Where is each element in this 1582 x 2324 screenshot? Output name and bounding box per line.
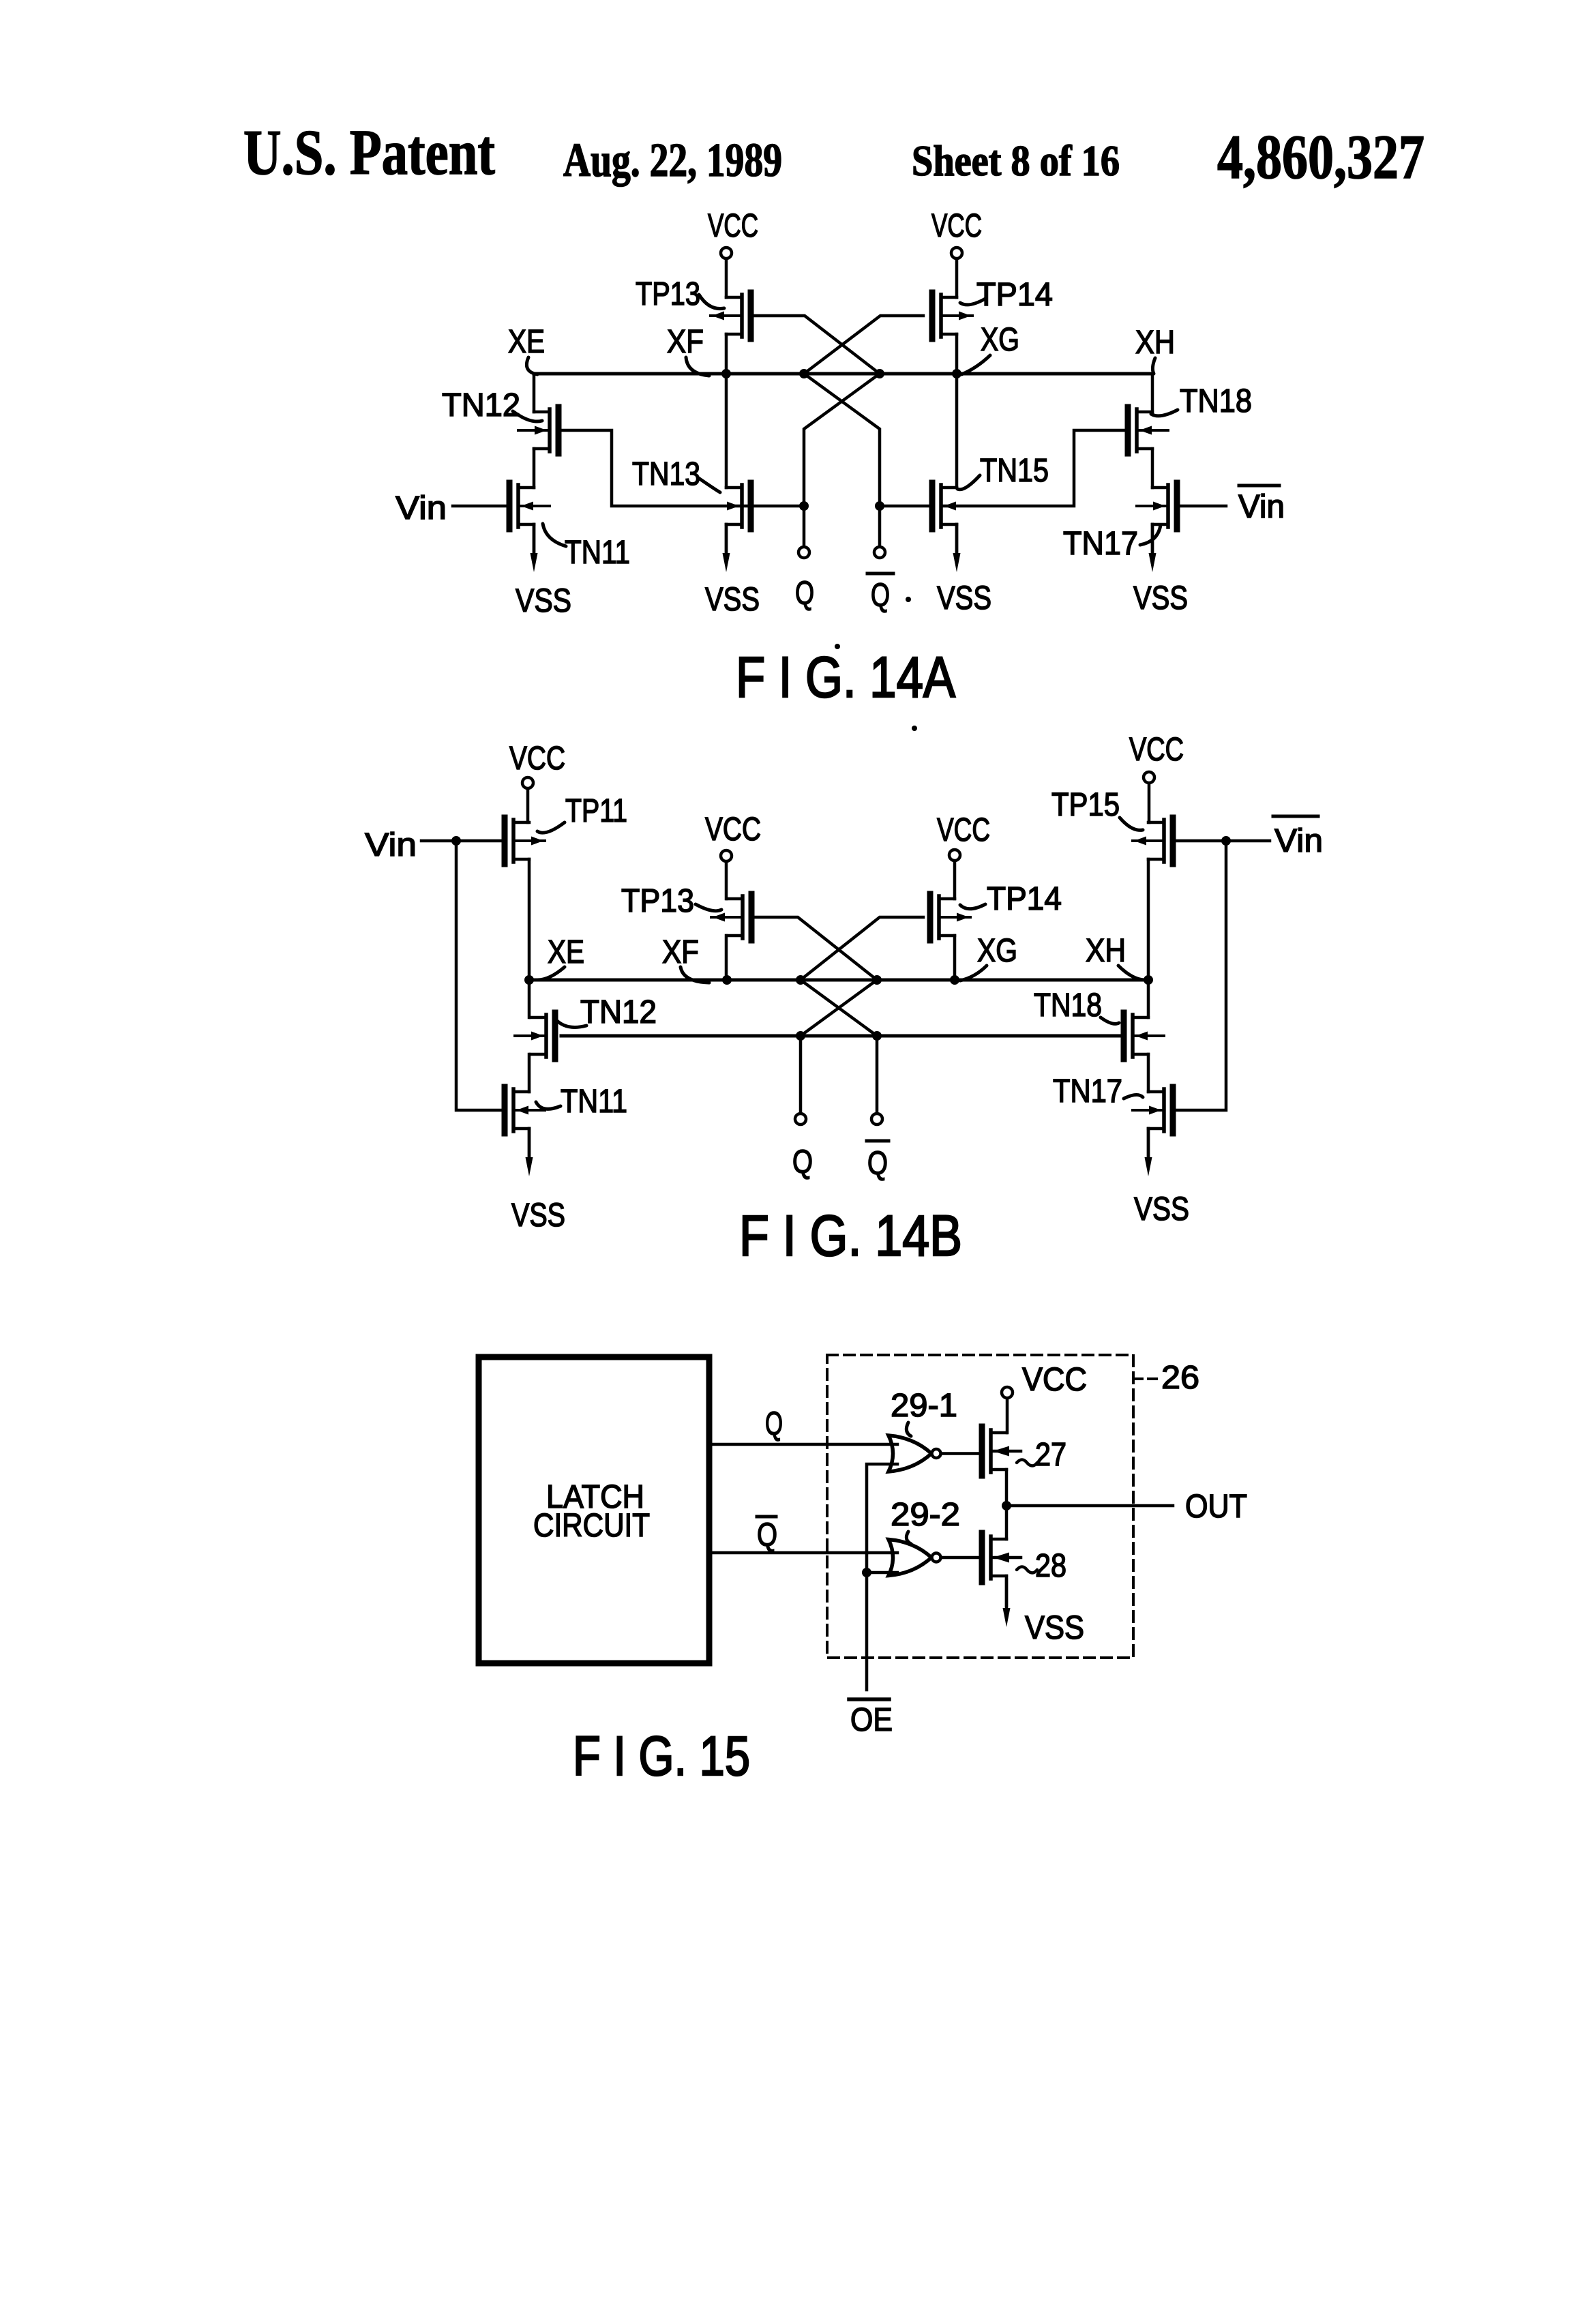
svg-text:29-2: 29-2 [891,1497,960,1533]
svg-text:VCC: VCC [937,812,990,848]
svg-text:F I G. 14A: F I G. 14A [736,645,955,709]
svg-text:TN13: TN13 [632,456,700,492]
svg-text:Vin: Vin [1274,823,1323,859]
svg-text:29-1: 29-1 [891,1388,957,1424]
svg-text:OUT: OUT [1185,1489,1247,1525]
svg-text:Q: Q [792,1144,813,1180]
svg-text:U.S. Patent: U.S. Patent [243,117,495,188]
svg-text:VSS: VSS [1025,1610,1084,1646]
svg-text:TN12: TN12 [580,994,657,1030]
svg-text:XH: XH [1135,325,1175,361]
svg-text:TN17: TN17 [1053,1073,1122,1109]
svg-text:Vin: Vin [1238,489,1285,525]
svg-text:VCC: VCC [705,811,761,848]
svg-text:VSS: VSS [1134,1191,1189,1227]
svg-text:VCC: VCC [1022,1362,1087,1398]
svg-text:27: 27 [1035,1437,1066,1473]
svg-text:XF: XF [667,324,704,360]
svg-text:TN11: TN11 [561,1084,627,1120]
svg-text:Vin: Vin [395,490,447,526]
svg-text:TP14: TP14 [987,881,1062,917]
svg-text:VCC: VCC [509,741,565,777]
svg-text:VCC: VCC [1129,732,1184,768]
svg-text:TP11: TP11 [565,793,627,829]
svg-text:TN15: TN15 [980,453,1049,489]
svg-text:TN17: TN17 [1063,526,1138,562]
svg-text:TP15: TP15 [1051,787,1120,823]
svg-text:XE: XE [548,934,584,970]
svg-text:Q: Q [871,578,890,614]
svg-text:TP13: TP13 [636,276,700,312]
svg-text:Sheet 8 of 16: Sheet 8 of 16 [912,136,1120,185]
svg-text:TN18: TN18 [1034,987,1102,1024]
svg-text:4,860,327: 4,860,327 [1217,122,1424,192]
svg-text:XG: XG [981,322,1019,358]
svg-text:Q: Q [867,1146,888,1182]
svg-text:TP13: TP13 [621,883,694,919]
svg-text:Aug. 22, 1989: Aug. 22, 1989 [563,134,782,187]
svg-text:VCC: VCC [931,208,982,244]
svg-text:Vin: Vin [365,827,417,863]
svg-text:TN11: TN11 [565,535,630,571]
svg-text:Q: Q [757,1517,777,1553]
svg-text:TN12: TN12 [442,387,520,423]
svg-text:28: 28 [1035,1548,1066,1584]
svg-text:VSS: VSS [516,583,571,619]
svg-text:Q: Q [765,1406,783,1442]
svg-text:OE: OE [850,1702,893,1738]
svg-text:XG: XG [977,933,1017,969]
svg-text:TP14: TP14 [976,277,1053,313]
svg-text:26: 26 [1161,1360,1199,1396]
svg-text:F I G. 14B: F I G. 14B [739,1204,962,1268]
svg-text:VSS: VSS [705,582,760,618]
svg-text:VCC: VCC [708,208,758,244]
svg-text:Q: Q [795,576,814,612]
svg-text:XE: XE [508,324,545,360]
svg-text:VSS: VSS [1133,580,1188,616]
svg-text:XF: XF [662,934,699,970]
svg-text:XH: XH [1086,933,1126,969]
svg-text:TN18: TN18 [1180,383,1252,419]
svg-text:VSS: VSS [511,1197,565,1234]
svg-text:VSS: VSS [937,580,991,616]
svg-text:CIRCUIT: CIRCUIT [533,1508,650,1544]
svg-text:F I G. 15: F I G. 15 [573,1725,750,1787]
